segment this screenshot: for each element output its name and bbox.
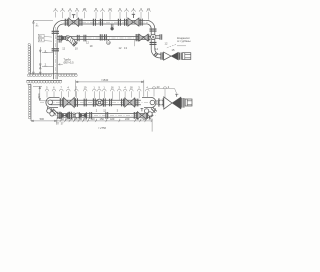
dimension chain lower: [57, 118, 152, 131]
dimension inner vertical: [39, 47, 53, 75]
flange pair F8: [59, 35, 61, 42]
flange pair F12: [148, 34, 150, 41]
ground wall hatch: [30, 46, 32, 74]
elbow down-left cluster: [47, 107, 53, 114]
flange pair L4: [122, 99, 124, 107]
flange pair F7: [150, 29, 157, 31]
dimension 600 vertical: [33, 86, 48, 100]
svg-text:12: 12: [108, 7, 112, 11]
node second row centerline: [56, 37, 161, 39]
svg-text:20: 20: [83, 7, 87, 11]
valve V1: [69, 18, 74, 26]
flange pair F3 with spool: [93, 19, 95, 26]
node top centerline: [58, 21, 150, 23]
callout leaders top row: [54, 10, 151, 20]
svg-text:220: 220: [125, 117, 130, 121]
flange pair F15: [52, 31, 59, 33]
flange pair F16: [52, 49, 59, 51]
flange pair L6: [159, 98, 163, 106]
flange pair F10 spool: [100, 34, 102, 40]
dimension 500 horizontal: [31, 118, 57, 124]
svg-text:≈ 2750: ≈ 2750: [98, 126, 106, 130]
wire left vertical pipe: [53, 30, 57, 79]
flange pair F1: [65, 19, 67, 26]
flange pair F9a: [77, 35, 79, 41]
ground wall hatch lower view: [28, 84, 31, 121]
dimension left outer: [33, 21, 54, 75]
elbow top-right: [146, 20, 155, 28]
flange pair L1: [60, 98, 62, 107]
flange pair L3b: [110, 99, 112, 106]
flange pair F6: [140, 19, 142, 26]
flange pair B6: [147, 112, 149, 119]
elbow lower-right: [151, 49, 160, 58]
valve LV1: [64, 98, 69, 108]
valve V6 exit: [164, 52, 171, 60]
valve LV2: [125, 98, 130, 107]
svg-text:110: 110: [90, 117, 95, 121]
wire lower right drop: [151, 39, 155, 49]
node pipe end circle right: [150, 100, 155, 105]
dimension top 1500: [76, 80, 144, 97]
gauge circles B: [72, 113, 77, 118]
svg-text:от турбины: от турбины: [177, 39, 191, 43]
wire lower row pipe: [57, 114, 150, 118]
flange pair F2: [80, 19, 82, 26]
flange pair L5: [136, 99, 138, 107]
wire exit horizontal: [159, 54, 162, 58]
stub right of cross: [156, 36, 160, 39]
wire right vertical drop: [151, 28, 155, 34]
sight glass L: [93, 98, 95, 106]
svg-text:≈1540: ≈1540: [101, 78, 109, 82]
flange pair F9: [84, 35, 86, 42]
wire top pipe run: [64, 20, 146, 24]
node lower centerline: [54, 114, 156, 116]
elbow top-left: [53, 20, 63, 30]
flange pair L3: [84, 99, 86, 107]
valve V5: [139, 34, 144, 41]
flange pair L7: [182, 98, 184, 108]
flange pair F14: [161, 52, 163, 59]
return bend left: [46, 97, 60, 107]
ground plan wall band: [27, 79, 63, 81]
valve V2: [128, 18, 133, 26]
flange on elbow 45deg: [154, 53, 158, 57]
ground floor hatch: [28, 73, 77, 75]
valve LV3 big: [164, 97, 172, 109]
return bend right: [142, 97, 156, 107]
digits under mid row: [96, 108, 119, 112]
valve BV1: [61, 112, 65, 119]
flange pair F5: [125, 19, 127, 26]
svg-text:150: 150: [100, 117, 105, 121]
valve BV2 stem: [141, 108, 144, 111]
flange pair B2: [70, 112, 72, 119]
flange pair F13 below cross: [150, 42, 157, 44]
strainer Y leg: [67, 36, 78, 47]
node mid centerline: [40, 102, 160, 104]
valve BV2: [137, 112, 142, 119]
callout digits below second row: [62, 41, 168, 51]
wire link to big valve: [156, 101, 159, 104]
callout hooks row: [45, 87, 177, 100]
node left pipe centerline: [54, 27, 56, 80]
flange pair B5: [134, 112, 136, 119]
flange pair B1: [58, 112, 60, 119]
svg-text:21: 21: [147, 7, 151, 11]
flange pair B4: [106, 112, 108, 119]
drain stub under pipe: [111, 24, 113, 27]
flange block end lower: [185, 99, 192, 106]
svg-text:420: 420: [110, 117, 115, 121]
leader to 12 13: [134, 40, 136, 47]
flange pair L2: [75, 98, 77, 107]
strainer body circle: [65, 36, 70, 41]
flange pair B3: [90, 112, 92, 119]
svg-text:600: 600: [37, 93, 41, 98]
flange pair F11: [136, 34, 138, 41]
elbow up right cluster: [150, 108, 155, 117]
node pipe end circle: [48, 100, 53, 105]
svg-text:Ø57×3,5: Ø57×3,5: [64, 61, 75, 65]
node drain callout bubble: [107, 40, 109, 41]
valve V4: [62, 35, 65, 40]
reducer pair B: [79, 112, 83, 118]
node cross junction: [151, 34, 156, 39]
wire mid row pipe: [51, 100, 141, 104]
wire second row pipe: [57, 37, 150, 40]
svg-text:500: 500: [40, 117, 45, 121]
flange pair F4: [118, 19, 120, 26]
flange block end: [179, 53, 181, 60]
